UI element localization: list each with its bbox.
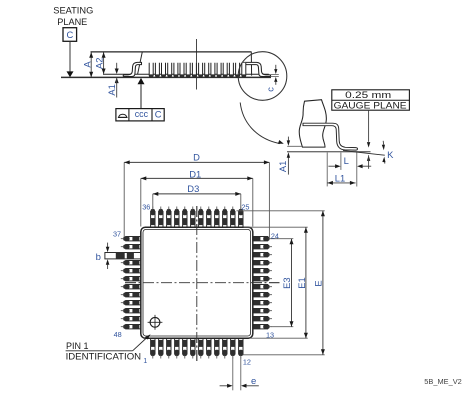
centerline cross xyxy=(125,206,280,361)
package body right edge xyxy=(250,52,252,75)
drawing id 5B_ME_V2 xyxy=(424,377,462,386)
label 0.25 mm xyxy=(345,89,391,100)
pin label 36 xyxy=(142,203,150,212)
label c xyxy=(266,87,276,92)
svg-text:SEATING: SEATING xyxy=(53,6,93,16)
dimension A2 line xyxy=(102,52,106,74)
E3 extensions xyxy=(272,239,294,327)
pin label 24 xyxy=(271,231,279,240)
gauge plane pointer xyxy=(367,110,370,169)
seating plane line xyxy=(61,76,271,78)
pin label 25 xyxy=(241,203,249,212)
pin 1 identification label xyxy=(66,341,142,361)
L extension lines xyxy=(341,153,357,187)
label E xyxy=(313,280,324,286)
svg-text:PIN 1: PIN 1 xyxy=(66,341,89,351)
svg-text:E: E xyxy=(313,280,324,286)
dimension K arrows xyxy=(382,141,386,164)
package body inner line xyxy=(143,229,251,336)
feature control frame xyxy=(116,109,164,121)
svg-text:5B_ME_V2: 5B_ME_V2 xyxy=(424,377,462,386)
left row leads (pins 37-48) xyxy=(105,237,142,329)
ccc frame leader xyxy=(140,84,142,108)
vertical centerline xyxy=(196,206,198,361)
right row leads (pins 24-13) xyxy=(252,237,272,329)
top row leads (pins 36-25) xyxy=(151,207,243,229)
package body left edge xyxy=(138,52,143,74)
datum triangle left xyxy=(67,71,74,77)
seating plane line (detail) xyxy=(287,151,371,153)
dimension A line xyxy=(89,52,93,77)
svg-text:ccc: ccc xyxy=(135,109,149,119)
svg-text:L: L xyxy=(344,155,349,166)
label GAUGE PLANE xyxy=(334,99,407,110)
svg-text:E1: E1 xyxy=(296,277,307,288)
svg-text:A2: A2 xyxy=(94,57,105,68)
svg-text:IDENTIFICATION: IDENTIFICATION xyxy=(66,351,142,361)
datum triangle right xyxy=(138,78,145,84)
svg-text:D: D xyxy=(193,151,200,162)
dimension L xyxy=(328,164,371,168)
svg-text:K: K xyxy=(387,149,394,160)
svg-text:L1: L1 xyxy=(335,173,345,184)
A1 detail body line xyxy=(287,145,302,147)
dimension b xyxy=(106,243,110,269)
svg-text:b: b xyxy=(96,252,101,263)
label E1 xyxy=(296,277,307,288)
label C in frame xyxy=(155,109,162,120)
dimension D1 xyxy=(141,176,253,226)
svg-text:C: C xyxy=(67,29,74,40)
dimension E xyxy=(321,211,325,355)
pin label 48 xyxy=(114,330,122,339)
label A1 side xyxy=(106,84,117,95)
pin label 37 xyxy=(113,230,121,239)
label A2 xyxy=(94,57,105,68)
datum C leader line xyxy=(69,41,71,72)
svg-text:C: C xyxy=(155,109,162,120)
label D xyxy=(193,151,200,162)
svg-text:E3: E3 xyxy=(281,277,292,288)
svg-text:c: c xyxy=(266,87,276,92)
svg-text:48: 48 xyxy=(114,330,122,339)
pin label 13 xyxy=(266,330,274,339)
flatness symbol xyxy=(118,114,128,117)
svg-text:D1: D1 xyxy=(189,169,201,180)
dimension A1 detail xyxy=(287,137,290,175)
package body top line xyxy=(91,51,252,53)
dimension E3 xyxy=(290,239,294,327)
label ccc xyxy=(135,109,149,119)
svg-text:1: 1 xyxy=(143,358,147,365)
svg-text:37: 37 xyxy=(113,230,121,239)
foot angle line K xyxy=(343,151,385,156)
c extension lines xyxy=(271,75,279,77)
label b xyxy=(96,252,101,263)
dimension D3 xyxy=(153,192,241,208)
pin 1 identification circle xyxy=(148,315,163,330)
dimension c arrows xyxy=(274,65,277,85)
E top extension xyxy=(237,210,325,212)
E bottom extension xyxy=(243,354,325,356)
label L xyxy=(344,155,349,166)
dimension D xyxy=(124,160,269,237)
svg-text:e: e xyxy=(251,376,256,387)
label A1 detail xyxy=(277,161,288,172)
svg-text:25: 25 xyxy=(241,203,249,212)
svg-text:36: 36 xyxy=(142,203,150,212)
label A xyxy=(82,61,93,68)
bottom row leads (pins 1-12) xyxy=(151,337,243,358)
svg-text:13: 13 xyxy=(266,330,274,339)
left lead side profile xyxy=(123,62,141,76)
svg-text:GAUGE PLANE: GAUGE PLANE xyxy=(334,99,407,110)
L1 extension line xyxy=(326,153,328,187)
dimension L1 xyxy=(327,181,355,185)
svg-text:D3: D3 xyxy=(187,183,199,194)
horizontal centerline xyxy=(125,282,280,284)
label D3 xyxy=(187,183,199,194)
datum C box xyxy=(63,28,77,42)
seating plane label xyxy=(53,6,93,28)
label E3 xyxy=(281,277,292,288)
balloon leader curve xyxy=(240,103,284,144)
label K xyxy=(387,149,394,160)
label D1 xyxy=(189,169,201,180)
label e xyxy=(251,376,256,387)
pin label 12 xyxy=(243,357,251,366)
svg-text:A1: A1 xyxy=(106,84,117,95)
svg-text:24: 24 xyxy=(271,231,279,240)
dimension E1 xyxy=(304,227,308,338)
package body bottom line xyxy=(103,73,269,75)
front row leads (side view comb) xyxy=(149,63,246,77)
package body outline xyxy=(141,227,253,338)
svg-text:12: 12 xyxy=(243,357,251,366)
E1 extensions xyxy=(244,227,308,338)
detail balloon circle xyxy=(238,52,287,101)
package body cross-section (detail) xyxy=(299,100,326,147)
pin 1 leader xyxy=(66,334,151,351)
side view centerline xyxy=(196,39,198,90)
svg-text:A1: A1 xyxy=(277,161,288,172)
label L1 xyxy=(335,173,345,184)
lead profile (detail) xyxy=(303,123,358,150)
svg-text:PLANE: PLANE xyxy=(57,17,87,27)
dimension A1 line xyxy=(115,63,119,98)
pin label 1 xyxy=(143,358,147,365)
e extension lines xyxy=(233,357,241,390)
right lead side profile xyxy=(244,62,271,76)
svg-text:A: A xyxy=(82,61,93,68)
dimension e xyxy=(220,384,259,388)
gauge plane box xyxy=(332,90,410,110)
